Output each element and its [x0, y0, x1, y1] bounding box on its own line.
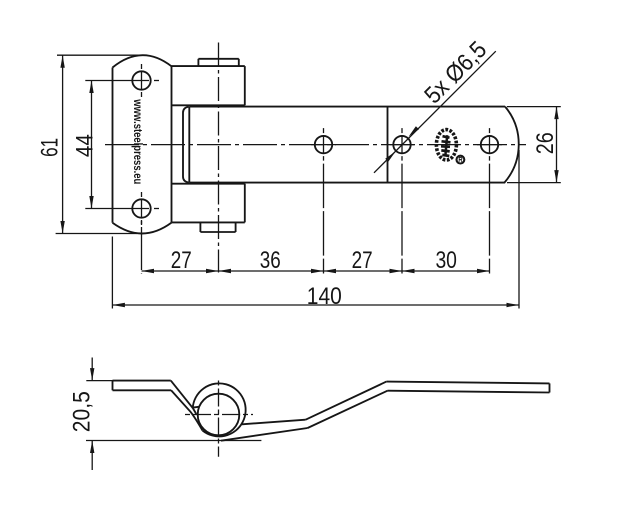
- svg-text:26: 26: [532, 132, 559, 154]
- svg-text:27: 27: [171, 247, 192, 274]
- svg-text:44: 44: [72, 134, 99, 157]
- svg-text:61: 61: [37, 138, 64, 157]
- svg-text:20,5: 20,5: [68, 391, 95, 432]
- svg-text:30: 30: [435, 247, 457, 274]
- svg-text:140: 140: [307, 283, 342, 310]
- svg-text:27: 27: [352, 247, 373, 274]
- svg-text:36: 36: [260, 247, 281, 274]
- svg-text:www.steelpress.eu: www.steelpress.eu: [131, 98, 143, 184]
